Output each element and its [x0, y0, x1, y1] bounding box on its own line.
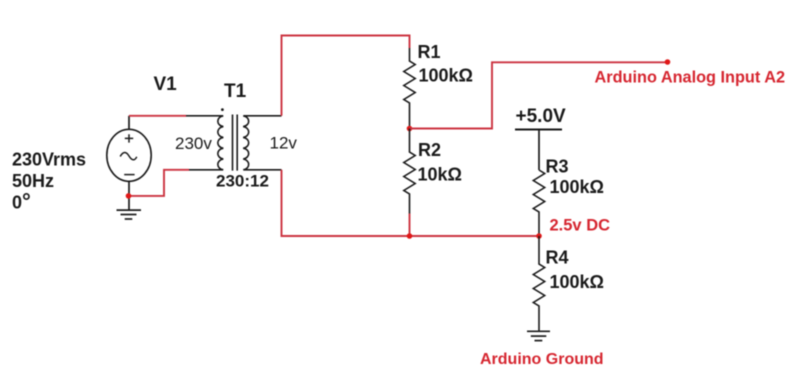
wire junction to Arduino analog input (red) — [410, 62, 668, 128]
svg-text:230:12: 230:12 — [216, 172, 269, 191]
junction R2/bottom rail — [407, 233, 413, 239]
wire T1 secondary top to R1 (red) — [282, 36, 410, 116]
svg-text:100kΩ: 100kΩ — [550, 177, 604, 197]
svg-text:50Hz: 50Hz — [12, 171, 54, 191]
svg-text:R4: R4 — [546, 248, 569, 268]
svg-text:T1: T1 — [224, 81, 247, 102]
svg-text:12v: 12v — [270, 134, 298, 153]
resistor R1 — [404, 48, 415, 129]
svg-text:R3: R3 — [546, 157, 569, 177]
wire T1 primary bottom to V1 bottom (red) — [129, 170, 189, 196]
junction V1 bottom / ground — [126, 193, 132, 199]
junction R3/R4/bottom rail — [536, 233, 542, 239]
resistor R3 — [533, 170, 544, 236]
svg-text:100kΩ: 100kΩ — [419, 66, 473, 86]
svg-text:10kΩ: 10kΩ — [418, 165, 462, 185]
wire V1 top to T1 primary top (red part) — [129, 115, 186, 117]
wire +5.0V to R3 — [538, 130, 540, 171]
resistor R2 — [404, 129, 415, 214]
voltage source V1 — [107, 129, 151, 181]
svg-text:230Vrms: 230Vrms — [12, 150, 86, 170]
svg-text:Arduino Analog Input A2: Arduino Analog Input A2 — [595, 69, 786, 87]
svg-text:Arduino Ground: Arduino Ground — [480, 351, 604, 368]
label 230Vrms 50Hz 0deg — [12, 150, 86, 214]
wire R2 bottom lead (red) — [409, 214, 411, 237]
resistor R4 — [533, 236, 544, 331]
svg-text:0°: 0° — [12, 189, 31, 214]
svg-text:R1: R1 — [418, 42, 441, 62]
power +5.0V — [515, 129, 562, 131]
svg-text:V1: V1 — [154, 74, 178, 95]
svg-text:230v: 230v — [175, 134, 212, 153]
wire T1 secondary bottom down to bottom rail (red) — [282, 170, 540, 236]
ground (Arduino) — [527, 331, 550, 340]
svg-text:+5.0V: +5.0V — [516, 106, 567, 127]
wire V1 bottom lead — [128, 181, 130, 210]
svg-text:R2: R2 — [418, 140, 441, 160]
transformer T1 — [218, 115, 249, 171]
junction R1/R2 — [407, 126, 413, 132]
svg-text:2.5v DC: 2.5v DC — [550, 217, 611, 235]
wire T1 primary top lead (black part) — [186, 115, 223, 117]
ground (V1) — [117, 210, 142, 219]
T1 polarity dot — [221, 108, 224, 111]
wire V1 top lead — [128, 116, 130, 130]
node Arduino Analog Input A2 (end dot) — [665, 59, 671, 65]
wire T1 primary bottom lead (black) — [189, 169, 223, 171]
wire T1 secondary bottom lead (black) — [244, 169, 282, 171]
wire T1 secondary top lead (black) — [244, 115, 282, 117]
svg-text:100kΩ: 100kΩ — [550, 272, 604, 292]
